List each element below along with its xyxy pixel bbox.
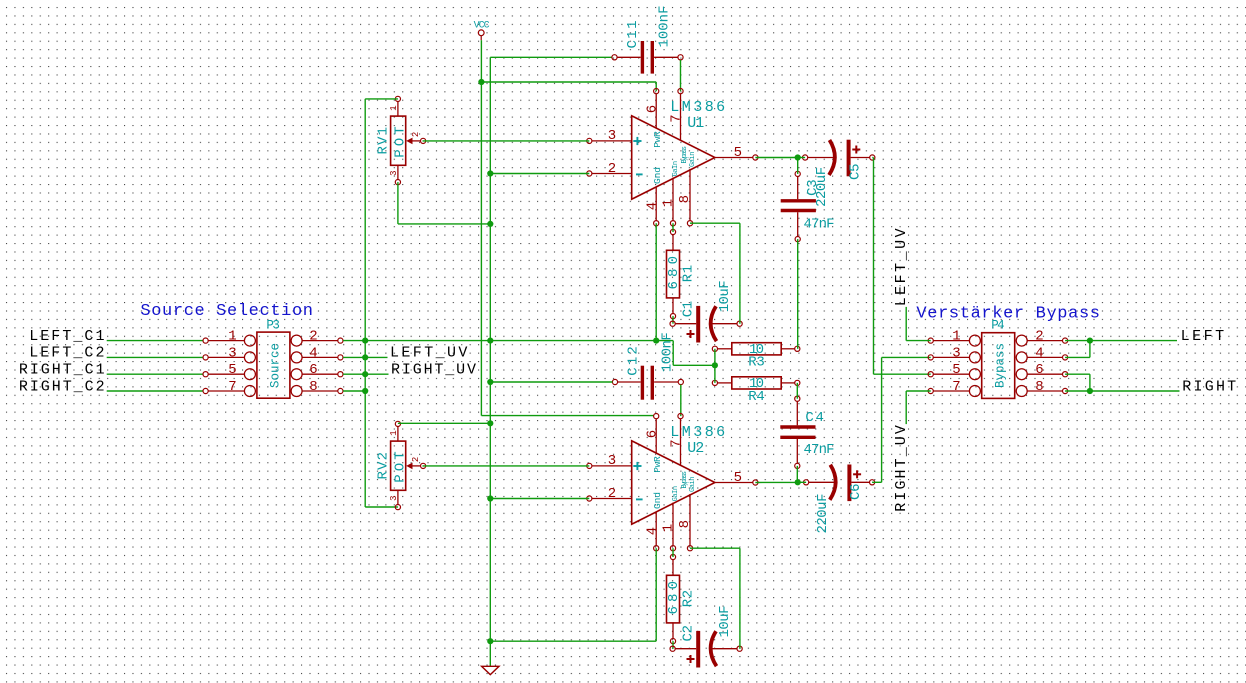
capacitor C11	[612, 6, 683, 74]
svg-text:1: 1	[389, 430, 399, 435]
junction	[653, 338, 659, 344]
wire	[489, 641, 491, 666]
junction	[362, 354, 368, 360]
junction	[362, 338, 368, 344]
title Verstaerker Bypass	[916, 304, 1100, 323]
wire	[680, 385, 682, 417]
label LEFT_C2	[29, 345, 104, 362]
svg-text:RV2: RV2	[376, 452, 392, 480]
wire	[365, 356, 387, 358]
wire	[796, 383, 798, 399]
svg-text:VCC: VCC	[474, 20, 490, 31]
junction	[362, 371, 368, 377]
svg-text:RV1: RV1	[376, 127, 392, 155]
wire	[107, 390, 203, 392]
svg-text:6: 6	[309, 362, 317, 378]
svg-text:LEFT_C1: LEFT_C1	[29, 328, 104, 345]
wire	[796, 466, 798, 482]
svg-text:LEFT_C2: LEFT_C2	[29, 345, 104, 362]
svg-text:Verstärker Bypass: Verstärker Bypass	[916, 304, 1100, 323]
wire	[107, 356, 203, 358]
wire	[672, 316, 674, 324]
resistor R3	[712, 342, 800, 371]
svg-text:220uF: 220uF	[815, 494, 831, 534]
svg-text:5: 5	[734, 145, 742, 161]
label RIGHT_UV	[391, 362, 476, 379]
wire	[672, 548, 674, 557]
svg-text:3: 3	[608, 453, 616, 469]
svg-text:GaIn: GaIn	[672, 486, 680, 502]
wire	[365, 506, 398, 508]
wire	[107, 340, 203, 342]
wire	[1065, 340, 1177, 342]
wire	[398, 422, 490, 424]
svg-text:3: 3	[389, 495, 399, 500]
svg-text:C5: C5	[848, 164, 864, 181]
junction	[487, 420, 493, 426]
junction	[487, 638, 493, 644]
wire	[655, 548, 657, 641]
junction	[487, 338, 493, 344]
wire	[872, 158, 930, 375]
title Source Selection	[140, 302, 313, 321]
wire	[872, 357, 931, 482]
wire	[690, 548, 740, 649]
op-amp U2	[587, 414, 758, 551]
wire	[490, 173, 589, 175]
label RIGHT_UV vertical	[893, 425, 910, 512]
svg-text:6: 6	[644, 430, 660, 438]
wire	[481, 82, 656, 91]
junction	[362, 388, 368, 394]
power flag VCC	[474, 20, 490, 40]
wire	[1090, 390, 1180, 392]
svg-text:8: 8	[677, 195, 693, 203]
junction	[795, 154, 801, 160]
junction	[1087, 388, 1093, 394]
wire	[343, 373, 365, 375]
svg-text:C12: C12	[626, 346, 642, 376]
wire	[480, 40, 482, 82]
connector P4	[928, 318, 1068, 398]
svg-text:8: 8	[309, 379, 317, 395]
svg-text:R2: R2	[680, 590, 696, 608]
svg-text:2: 2	[411, 132, 421, 137]
ground	[482, 666, 499, 674]
wire	[1089, 341, 1091, 358]
svg-text:LM386: LM386	[670, 424, 725, 441]
svg-text:R3: R3	[748, 355, 765, 371]
wire	[680, 60, 682, 91]
svg-text:C11: C11	[625, 21, 641, 49]
resistor R2	[666, 554, 696, 643]
wire	[490, 56, 612, 58]
svg-text:47nF: 47nF	[804, 217, 835, 233]
svg-text:5: 5	[228, 362, 236, 378]
svg-text:47nF: 47nF	[804, 442, 835, 458]
svg-text:C4: C4	[805, 410, 824, 426]
wire	[714, 349, 716, 383]
svg-text:1: 1	[228, 329, 236, 345]
svg-text:U2: U2	[687, 440, 704, 457]
svg-text:RIGHT_C2: RIGHT_C2	[19, 378, 105, 395]
capacitor C5	[803, 140, 875, 207]
junction	[1087, 338, 1093, 344]
label RIGHT_C1	[19, 362, 105, 379]
svg-text:Gain: Gain	[689, 477, 697, 493]
svg-text:PwR: PwR	[652, 456, 663, 473]
svg-text:Bypass: Bypass	[993, 343, 1007, 388]
svg-text:220uF: 220uF	[814, 167, 830, 207]
svg-text:P3: P3	[266, 318, 280, 332]
wire	[343, 390, 365, 392]
junction	[795, 479, 801, 485]
wire	[481, 415, 654, 417]
wire	[1065, 356, 1090, 358]
wire	[107, 373, 203, 375]
svg-text:5: 5	[734, 470, 742, 486]
label RIGHT_C2	[19, 378, 105, 395]
capacitor C6	[804, 465, 875, 534]
svg-text:100nF: 100nF	[657, 6, 673, 48]
svg-text:C2: C2	[681, 625, 697, 642]
svg-text:2: 2	[309, 329, 317, 345]
svg-text:P4: P4	[991, 318, 1005, 332]
svg-text:8: 8	[1035, 379, 1043, 395]
wire	[423, 140, 590, 142]
wire	[343, 356, 365, 358]
potentiometer RV1	[376, 96, 426, 184]
capacitor C1	[670, 280, 742, 342]
wire	[398, 182, 490, 224]
svg-text:3: 3	[389, 170, 399, 175]
capacitor C3	[781, 171, 835, 241]
svg-text:4: 4	[1035, 345, 1043, 361]
op-amp U1	[587, 89, 758, 226]
junction	[487, 170, 493, 176]
svg-text:100nF: 100nF	[659, 332, 675, 372]
svg-text:8: 8	[677, 520, 693, 528]
svg-text:Gnd: Gnd	[652, 492, 663, 509]
svg-text:RIGHT_C1: RIGHT_C1	[19, 362, 105, 379]
svg-text:Source Selection: Source Selection	[140, 302, 313, 321]
svg-text:10uF: 10uF	[717, 606, 733, 638]
svg-text:RIGHT: RIGHT	[1182, 378, 1236, 395]
svg-text:Source: Source	[269, 343, 283, 388]
wire	[798, 157, 805, 159]
svg-text:1: 1	[389, 105, 399, 110]
svg-text:LEFT_UV: LEFT_UV	[390, 345, 467, 362]
svg-text:PwR: PwR	[652, 131, 663, 148]
svg-text:LEFT_UV: LEFT_UV	[893, 228, 910, 306]
svg-text:1: 1	[661, 524, 677, 532]
resistor R1	[666, 229, 696, 318]
wire	[656, 341, 715, 366]
svg-text:3: 3	[228, 345, 236, 361]
junction	[478, 79, 484, 85]
svg-text:C1: C1	[681, 301, 697, 318]
svg-text:Gain: Gain	[689, 152, 697, 168]
wire VCC rail	[480, 82, 482, 416]
label LEFT	[1181, 328, 1225, 345]
label LEFT_UV	[390, 345, 467, 362]
capacitor C4	[780, 396, 834, 468]
wire	[1089, 374, 1091, 391]
wire	[365, 340, 656, 342]
svg-text:R1: R1	[680, 265, 696, 283]
wire	[672, 223, 674, 232]
svg-text:Bypass: Bypass	[681, 146, 689, 164]
svg-text:POT: POT	[392, 451, 408, 483]
junction	[487, 495, 493, 501]
svg-text:3: 3	[608, 128, 616, 144]
wire	[490, 381, 612, 383]
svg-text:3: 3	[952, 345, 960, 361]
wire	[797, 158, 799, 174]
svg-text:6: 6	[644, 105, 660, 113]
svg-text:U1: U1	[687, 115, 704, 132]
resistor R4	[712, 376, 800, 405]
svg-text:4: 4	[644, 527, 660, 535]
wire	[365, 373, 388, 375]
svg-text:2: 2	[1035, 329, 1043, 345]
label LEFT_C1	[29, 328, 104, 345]
svg-text:Bypass: Bypass	[681, 471, 689, 489]
svg-text:R4: R4	[748, 389, 765, 405]
wire	[490, 498, 589, 500]
svg-text:4: 4	[309, 345, 317, 361]
wire	[1065, 373, 1090, 375]
junction	[487, 221, 493, 227]
wire	[755, 481, 797, 483]
wire GND rail	[489, 57, 491, 641]
svg-text:2: 2	[608, 486, 616, 502]
wire	[655, 223, 657, 340]
svg-text:Gnd: Gnd	[652, 167, 663, 184]
label RIGHT	[1182, 378, 1236, 395]
svg-text:POT: POT	[392, 126, 408, 158]
wire	[490, 640, 656, 642]
junction	[712, 362, 718, 368]
svg-text:4: 4	[644, 202, 660, 210]
wire	[906, 307, 931, 341]
wire	[797, 239, 799, 349]
svg-text:1: 1	[952, 329, 960, 345]
connector P3	[203, 318, 343, 398]
svg-text:7: 7	[952, 379, 960, 395]
label LEFT_UV vertical	[893, 228, 910, 306]
junction	[487, 379, 493, 385]
svg-text:GaIn: GaIn	[672, 161, 680, 177]
wire	[798, 481, 806, 483]
potentiometer RV2	[376, 421, 426, 509]
svg-text:10uF: 10uF	[717, 280, 733, 312]
svg-text:7: 7	[228, 379, 236, 395]
capacitor C2	[670, 606, 742, 668]
svg-text:1: 1	[661, 199, 677, 207]
svg-text:RIGHT_UV: RIGHT_UV	[391, 362, 476, 379]
capacitor C12	[612, 332, 683, 400]
wire	[343, 340, 365, 342]
wire	[690, 223, 740, 324]
svg-text:2: 2	[608, 161, 616, 177]
wire	[1065, 390, 1090, 392]
svg-text:6: 6	[1035, 362, 1043, 378]
wire	[365, 99, 398, 507]
svg-text:2: 2	[411, 457, 421, 462]
wire	[672, 641, 674, 649]
svg-text:C6: C6	[848, 484, 864, 501]
wire	[906, 391, 931, 424]
wire	[755, 157, 797, 159]
wire	[423, 465, 590, 467]
svg-text:5: 5	[952, 362, 960, 378]
svg-text:LM386: LM386	[670, 99, 725, 116]
